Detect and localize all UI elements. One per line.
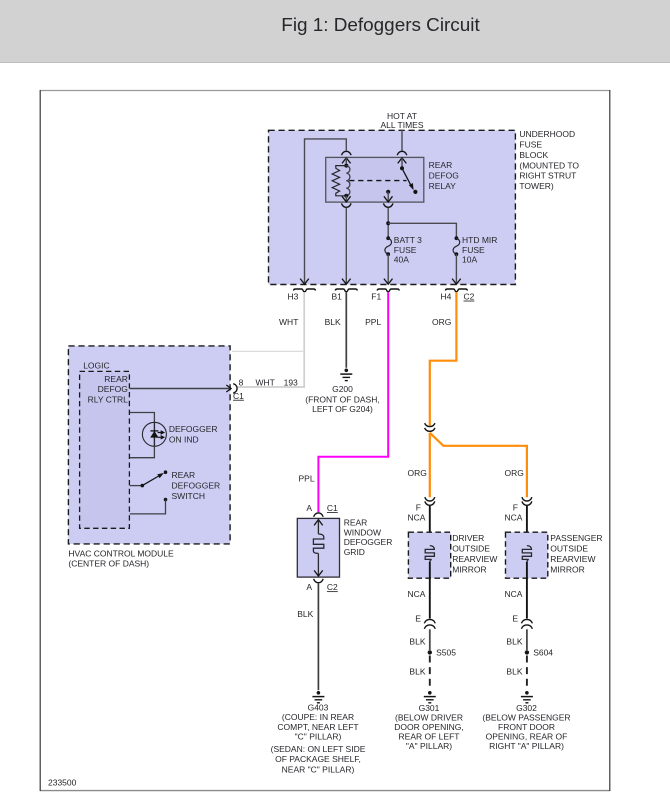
rear defog rly ctrl label bbox=[88, 374, 129, 404]
relay coil terminal arrow (up) bbox=[342, 158, 351, 166]
wire defogger switch return bbox=[130, 500, 166, 514]
driver mirror label bbox=[452, 533, 497, 574]
svg-text:MIRROR: MIRROR bbox=[452, 564, 486, 574]
rear defogger switch label bbox=[172, 470, 221, 501]
svg-text:ON IND: ON IND bbox=[169, 435, 199, 445]
wire ORG to driver mirror bbox=[429, 433, 431, 498]
connector bracket F1 bbox=[377, 289, 399, 292]
connector E driver bbox=[424, 619, 435, 628]
svg-text:NEAR "C" PILLAR): NEAR "C" PILLAR) bbox=[282, 764, 355, 774]
svg-text:(SEDAN: ON LEFT SIDE: (SEDAN: ON LEFT SIDE bbox=[271, 744, 366, 754]
svg-text:WINDOW: WINDOW bbox=[344, 527, 381, 537]
connector C1 at module edge bbox=[233, 384, 237, 394]
connector at relay coil top bbox=[342, 151, 352, 155]
svg-text:BATT 3: BATT 3 bbox=[394, 235, 422, 245]
connector label C2 bbox=[464, 292, 475, 302]
ground G302 label bbox=[482, 703, 570, 751]
svg-text:COMPT, NEAR LEFT: COMPT, NEAR LEFT bbox=[277, 722, 358, 732]
wire LED branch upper bbox=[130, 413, 155, 423]
svg-text:REAR OF LEFT: REAR OF LEFT bbox=[399, 732, 460, 742]
relay internal dashed link bbox=[349, 180, 406, 182]
wire rly ctrl output to C1 bbox=[130, 385, 231, 392]
svg-text:REAR: REAR bbox=[344, 518, 368, 528]
wire H3 feed to relay coil bbox=[300, 139, 346, 284]
wire NCA into driver mirror bbox=[429, 506, 431, 547]
svg-text:(FRONT OF DASH,: (FRONT OF DASH, bbox=[305, 394, 379, 404]
svg-text:A: A bbox=[306, 503, 312, 513]
title bar bbox=[0, 0, 670, 63]
wire relay coil to B1 bbox=[342, 208, 351, 284]
relay coil parallel resistor bbox=[332, 166, 346, 196]
svg-text:FRONT DOOR: FRONT DOOR bbox=[498, 722, 555, 732]
wire LED branch lower bbox=[130, 446, 155, 457]
svg-text:DEFOG: DEFOG bbox=[429, 170, 459, 180]
svg-text:(MOUNTED TO: (MOUNTED TO bbox=[519, 160, 579, 170]
wire HTD MIR fuse to H4 bbox=[452, 254, 461, 284]
ground G301 bbox=[424, 691, 436, 703]
svg-text:NCA: NCA bbox=[407, 589, 425, 599]
ground G302 bbox=[521, 691, 533, 703]
ground G403 bbox=[312, 691, 324, 703]
relay coil terminal arrow (down) bbox=[342, 196, 351, 202]
svg-text:RLY CTRL: RLY CTRL bbox=[88, 394, 129, 404]
passenger mirror label bbox=[550, 533, 602, 574]
diagram frame bbox=[40, 90, 610, 791]
svg-text:ORG: ORG bbox=[505, 468, 524, 478]
wire BLK driver to splice bbox=[429, 629, 431, 650]
ground G200 label bbox=[305, 384, 379, 414]
svg-text:LEFT OF G204): LEFT OF G204) bbox=[312, 404, 373, 414]
wire BLK B1 to G200 bbox=[345, 292, 347, 368]
rear window defogger grid box bbox=[297, 518, 339, 577]
svg-text:DOOR OPENING,: DOOR OPENING, bbox=[394, 722, 463, 732]
svg-text:DEFOGGER: DEFOGGER bbox=[172, 480, 221, 490]
connector below relay coil bbox=[342, 203, 352, 207]
grid element wire arrow up bbox=[314, 520, 323, 534]
connector E passenger bbox=[521, 619, 532, 628]
svg-text:(CENTER OF DASH): (CENTER OF DASH) bbox=[68, 559, 149, 569]
svg-text:(BELOW PASSENGER: (BELOW PASSENGER bbox=[482, 712, 570, 722]
svg-text:REAR: REAR bbox=[429, 160, 453, 170]
fuse BATT 3 40A bbox=[385, 236, 392, 256]
relay output terminal arrow (down) bbox=[384, 192, 393, 202]
svg-text:RIGHT "A" PILLAR): RIGHT "A" PILLAR) bbox=[489, 741, 564, 751]
svg-text:B1: B1 bbox=[331, 292, 342, 302]
connector bracket B1 bbox=[335, 289, 357, 292]
wire WHT from H3 bbox=[237, 292, 305, 387]
svg-text:WHT: WHT bbox=[256, 378, 275, 388]
connector bracket H3 bbox=[294, 289, 316, 292]
defogger switch pivot dot bbox=[141, 484, 145, 488]
svg-text:(COUPE: IN REAR: (COUPE: IN REAR bbox=[282, 712, 354, 722]
svg-text:193: 193 bbox=[284, 378, 298, 388]
svg-text:BLK: BLK bbox=[325, 317, 341, 327]
passenger outside rearview mirror box bbox=[506, 532, 548, 578]
connector at grid top bbox=[314, 513, 324, 517]
svg-text:REARVIEW: REARVIEW bbox=[550, 554, 595, 564]
svg-text:DEFOGGER: DEFOGGER bbox=[169, 424, 218, 434]
relay switch blade bbox=[402, 168, 414, 190]
logic box bbox=[80, 371, 130, 528]
svg-text:ALL TIMES: ALL TIMES bbox=[381, 120, 424, 130]
svg-text:H3: H3 bbox=[288, 292, 299, 302]
wire BATT 3 fuse to F1 bbox=[384, 254, 393, 284]
svg-text:BLK: BLK bbox=[297, 609, 313, 619]
svg-text:BLK: BLK bbox=[409, 667, 425, 677]
svg-text:DEFOGGER: DEFOGGER bbox=[344, 537, 393, 547]
svg-text:S505: S505 bbox=[436, 647, 456, 657]
fuse HTD MIR label bbox=[462, 235, 497, 264]
svg-text:GRID: GRID bbox=[344, 547, 365, 557]
connector below relay output bbox=[383, 203, 393, 207]
wire BLK dashed splice to G301 bbox=[429, 656, 431, 691]
svg-text:G200: G200 bbox=[332, 384, 353, 394]
wire branch to HTD MIR fuse bbox=[388, 223, 456, 238]
wire NCA out of driver mirror bbox=[429, 562, 431, 619]
svg-text:BLK: BLK bbox=[506, 667, 522, 677]
svg-text:OPENING, REAR OF: OPENING, REAR OF bbox=[486, 732, 568, 742]
svg-text:C1: C1 bbox=[327, 503, 338, 513]
svg-text:OUTSIDE: OUTSIDE bbox=[452, 544, 490, 554]
relay switch output contact dot bbox=[386, 190, 390, 194]
relay coil junction dot top bbox=[344, 164, 348, 168]
splice S505 bbox=[428, 647, 457, 657]
svg-text:LOGIC: LOGIC bbox=[83, 361, 109, 371]
svg-text:C2: C2 bbox=[327, 582, 338, 592]
connector bracket H4 bbox=[445, 289, 467, 292]
relay coil winding bbox=[346, 166, 350, 196]
svg-text:BLK: BLK bbox=[409, 637, 425, 647]
svg-text:F: F bbox=[513, 502, 518, 512]
svg-text:DEFOG: DEFOG bbox=[98, 384, 128, 394]
svg-text:NCA: NCA bbox=[504, 589, 522, 599]
underhood fuse block label bbox=[519, 129, 579, 191]
driver mirror heater element bbox=[425, 546, 434, 563]
svg-text:E: E bbox=[512, 614, 518, 624]
wire NCA into passenger mirror bbox=[526, 506, 528, 547]
svg-text:PPL: PPL bbox=[365, 317, 381, 327]
svg-text:REARVIEW: REARVIEW bbox=[452, 554, 497, 564]
ground G301 label bbox=[394, 703, 463, 751]
splice S604 bbox=[525, 647, 554, 657]
junction dot fuse branch bbox=[386, 221, 390, 225]
defogger switch blade bbox=[142, 473, 164, 486]
svg-text:A: A bbox=[306, 582, 312, 592]
svg-text:ORG: ORG bbox=[432, 317, 451, 327]
passenger mirror heater element bbox=[522, 546, 531, 563]
wire BLK dashed splice to G302 bbox=[526, 656, 528, 691]
driver outside rearview mirror box bbox=[408, 532, 450, 578]
svg-text:8: 8 bbox=[239, 378, 244, 388]
connector at passenger mirror bbox=[522, 497, 532, 505]
svg-text:RIGHT STRUT: RIGHT STRUT bbox=[519, 171, 576, 181]
underhood fuse block bbox=[269, 130, 516, 284]
fuse HTD MIR 10A bbox=[453, 236, 460, 256]
wire BLK grid to G403 bbox=[317, 583, 319, 690]
svg-text:F: F bbox=[416, 502, 421, 512]
connector below grid bbox=[314, 579, 324, 583]
svg-text:E: E bbox=[415, 614, 421, 624]
svg-text:WHT: WHT bbox=[279, 317, 298, 327]
inline connector on ORG wire bbox=[425, 423, 435, 431]
LED defogger on indicator bbox=[150, 422, 164, 446]
svg-text:UNDERHOOD: UNDERHOOD bbox=[519, 129, 575, 139]
svg-text:MIRROR: MIRROR bbox=[550, 564, 584, 574]
svg-text:SWITCH: SWITCH bbox=[172, 491, 206, 501]
wire NCA out of passenger mirror bbox=[526, 562, 528, 619]
rear defog relay label bbox=[429, 160, 459, 191]
svg-text:G403: G403 bbox=[308, 703, 329, 713]
svg-text:NCA: NCA bbox=[407, 513, 425, 523]
svg-text:233500: 233500 bbox=[48, 778, 77, 788]
relay coil junction dot bottom bbox=[344, 194, 348, 198]
svg-text:HTD MIR: HTD MIR bbox=[462, 235, 497, 245]
wire PPL from F1 bbox=[318, 292, 388, 512]
wire relay output to BATT 3 fuse bbox=[387, 208, 389, 238]
svg-text:Fig 1: Defoggers Circuit: Fig 1: Defoggers Circuit bbox=[281, 15, 480, 36]
relay switch lower contact dot bbox=[413, 190, 417, 194]
svg-text:"C" PILLAR): "C" PILLAR) bbox=[295, 732, 342, 742]
rear window defogger grid label bbox=[344, 518, 393, 558]
svg-text:REAR: REAR bbox=[104, 374, 128, 384]
ground G403 label bbox=[271, 703, 366, 775]
wire hot feed to relay switch bbox=[401, 130, 403, 151]
svg-text:C1: C1 bbox=[233, 391, 244, 401]
svg-text:10A: 10A bbox=[462, 254, 477, 264]
wire ORG branch to passenger mirror bbox=[430, 433, 527, 498]
svg-text:PPL: PPL bbox=[299, 474, 315, 484]
grid heater element bbox=[313, 534, 323, 553]
defogger switch lower contact dot bbox=[164, 498, 168, 502]
svg-text:DRIVER: DRIVER bbox=[452, 533, 484, 543]
svg-text:C2: C2 bbox=[464, 292, 475, 302]
ground G200 bbox=[340, 369, 352, 381]
svg-text:H4: H4 bbox=[441, 292, 452, 302]
relay switch pivot dot bbox=[400, 166, 404, 170]
svg-text:OUTSIDE: OUTSIDE bbox=[550, 544, 588, 554]
svg-text:REAR: REAR bbox=[172, 470, 196, 480]
wire ORG from H4 bbox=[430, 292, 457, 425]
svg-text:BLK: BLK bbox=[506, 637, 522, 647]
hvac module caption bbox=[68, 549, 174, 569]
svg-text:FUSE: FUSE bbox=[394, 245, 417, 255]
svg-text:TOWER): TOWER) bbox=[519, 181, 553, 191]
wire BLK passenger to splice bbox=[526, 629, 528, 650]
node HOT AT ALL TIMES bbox=[381, 111, 424, 130]
svg-text:(BELOW DRIVER: (BELOW DRIVER bbox=[395, 712, 463, 722]
svg-text:PASSENGER: PASSENGER bbox=[550, 533, 602, 543]
grid element wire arrow down bbox=[314, 553, 323, 576]
svg-text:NCA: NCA bbox=[504, 513, 522, 523]
defogger switch upper contact dot bbox=[164, 470, 168, 474]
svg-text:"A" PILLAR): "A" PILLAR) bbox=[406, 741, 452, 751]
svg-text:F1: F1 bbox=[371, 292, 381, 302]
relay switch terminal arrow (up) bbox=[398, 158, 407, 169]
hvac control module box bbox=[68, 346, 230, 544]
svg-text:HVAC CONTROL MODULE: HVAC CONTROL MODULE bbox=[68, 549, 174, 559]
svg-text:40A: 40A bbox=[394, 254, 409, 264]
svg-text:OF PACKAGE SHELF,: OF PACKAGE SHELF, bbox=[275, 754, 361, 764]
wire defogger switch stub bbox=[130, 485, 143, 487]
rear defog relay box bbox=[326, 157, 424, 202]
svg-text:ORG: ORG bbox=[408, 468, 427, 478]
defogger on ind label bbox=[169, 424, 218, 445]
svg-text:BLOCK: BLOCK bbox=[519, 150, 548, 160]
indicator lamp circle bbox=[142, 422, 166, 446]
svg-text:FUSE: FUSE bbox=[462, 245, 485, 255]
fuse BATT 3 label bbox=[394, 235, 422, 264]
connector at relay switch top bbox=[397, 151, 407, 155]
svg-text:RELAY: RELAY bbox=[429, 181, 457, 191]
svg-text:FUSE: FUSE bbox=[519, 140, 542, 150]
connector at driver mirror bbox=[425, 497, 435, 505]
svg-text:S604: S604 bbox=[533, 647, 553, 657]
wire WHT label box edge bbox=[232, 350, 304, 352]
